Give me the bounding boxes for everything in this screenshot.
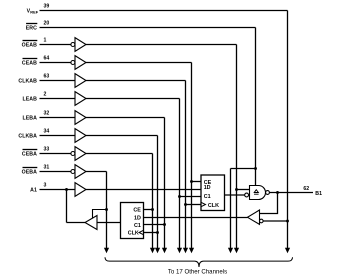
node CEAB to flip-flop CE (190, 180, 193, 183)
inverter bubble on OEBA buffer input (71, 170, 75, 174)
svg-text:39: 39 (44, 3, 50, 9)
svg-text:1: 1 (44, 37, 47, 43)
inverter bubble on gate lower input (245, 193, 249, 197)
svg-text:2: 2 (44, 91, 47, 97)
wire CEBA vertical drop (152, 154, 154, 249)
wire driver output to A1 node (67, 222, 86, 224)
svg-text:VREF: VREF (27, 8, 39, 14)
wire OEAB vertical drop (236, 45, 238, 249)
svg-text:32: 32 (44, 110, 50, 116)
node A1 junction (65, 188, 68, 191)
wire OEBA buffer output run (86, 171, 107, 173)
wire CLKBA to lower CLK input (144, 232, 158, 234)
down arrow to other channels (OEAB) (234, 248, 239, 253)
node OEBA to A-port driver enable (105, 208, 108, 211)
wire gate output to B1 (269, 192, 313, 194)
svg-text:33: 33 (44, 146, 50, 152)
wire LEAB buffer output run (86, 98, 180, 100)
wire CEBA buffer output run (86, 153, 153, 155)
wire CEAB input (pin 64) to buffer (40, 62, 71, 64)
node OEAB to output gate input (235, 188, 238, 191)
svg-text:B1: B1 (315, 191, 322, 197)
svg-text:3: 3 (44, 182, 47, 188)
clock edge symbol on B-to-A flip-flop (139, 230, 143, 234)
svg-text:ERC: ERC (26, 25, 37, 31)
wire OEAB to gate upper input (237, 189, 250, 191)
down arrow to other channels (LEAB) (177, 248, 182, 253)
buffer for CEBA (75, 147, 86, 161)
inverter bubble on CEAB buffer input (71, 61, 75, 65)
wire A1 input (40, 189, 76, 191)
wire B1 down to receiver data input (260, 193, 278, 214)
buffer A1 input (A-to-B) (75, 183, 86, 197)
wire VREF horizontal run (40, 10, 288, 12)
wire LEBA vertical drop (164, 118, 166, 249)
buffer for OEAB (75, 38, 86, 52)
inverter bubble on gate output (266, 191, 270, 195)
svg-text:1D: 1D (134, 215, 141, 221)
svg-text:CE: CE (133, 207, 141, 213)
svg-text:A1: A1 (30, 187, 37, 193)
flip-flop A-to-B (upper latch block) (201, 175, 225, 211)
inverter bubble on OEAB buffer input (71, 43, 75, 47)
down arrow to other channels (OEBA) (104, 248, 109, 253)
svg-text:C1: C1 (204, 194, 211, 200)
buffer for CLKAB (75, 74, 86, 88)
svg-text:LEBA: LEBA (22, 115, 37, 121)
svg-text:64: 64 (44, 55, 50, 61)
node VREF to receiver reference (286, 220, 289, 223)
wire LEBA to lower C1 input (144, 224, 165, 226)
svg-text:CLK: CLK (208, 203, 219, 209)
flip-flop B-to-A (lower latch block) (121, 203, 144, 239)
svg-text:CEAB: CEAB (22, 60, 37, 66)
overline for ERC (26, 23, 37, 25)
wire B-to-A flip-flop Q output to A-port driver (97, 222, 121, 224)
svg-text:34: 34 (44, 128, 50, 134)
wire OEAB input (pin 1) to buffer (40, 44, 71, 46)
buffer for LEAB (75, 92, 86, 106)
svg-text:LEAB: LEAB (22, 96, 37, 102)
wire CLKAB vertical drop (185, 81, 187, 249)
clock edge symbol on A-to-B flip-flop (201, 202, 205, 206)
wire LEAB to C1 input (180, 196, 202, 198)
buffer for OEBA (75, 165, 86, 179)
svg-text:62: 62 (303, 186, 309, 192)
wire A1 node down to driver output (66, 190, 68, 223)
down arrow to other channels (CEBA) (150, 248, 155, 253)
wire ERC branch horizontal (231, 168, 256, 170)
down arrow to other channels (CEAB) (189, 248, 194, 253)
node ERC branch junction (254, 167, 257, 170)
wire A1 buffer output to flip-flop 1D (86, 189, 201, 191)
wire CLKBA input (pin 34) to buffer (40, 135, 76, 137)
wire LEAB vertical drop (179, 99, 181, 249)
wire VREF vertical drop (287, 11, 289, 249)
down arrow to other channels (LEBA) (162, 248, 167, 253)
wire receiver output to B-to-A flip-flop 1D (144, 217, 248, 219)
wire ERC vertical drop (255, 28, 257, 186)
wire CLKAB buffer output run (86, 80, 186, 82)
wire CLKAB input (pin 63) to buffer (40, 80, 76, 82)
wire LEBA input (pin 32) to buffer (40, 117, 76, 119)
inverter bubble on CEBA buffer input (71, 152, 75, 156)
wire CEAB buffer output run (86, 62, 192, 64)
brace spanning other-channel lines (105, 257, 293, 267)
wire CEBA to lower CE input (144, 209, 153, 211)
down arrow to other channels (CLKAB) (183, 248, 188, 253)
down arrow to other channels (CLKBA) (155, 248, 160, 253)
wire CLKBA buffer output run (86, 135, 158, 137)
down arrow to other channels (VREF) (285, 248, 290, 253)
wire CEBA input (pin 33) to buffer (40, 153, 71, 155)
buffer for LEBA (75, 111, 86, 125)
node CEBA to B-to-A flip-flop CE (151, 208, 154, 211)
buffer for CLKBA (75, 129, 86, 143)
down arrow to other channels (ERC branch) (228, 248, 233, 253)
wire CLKBA vertical drop (157, 136, 159, 249)
svg-text:OEBA: OEBA (22, 169, 38, 175)
wire OEBA vertical drop (106, 172, 108, 249)
overline for CEAB (23, 58, 38, 60)
svg-text:20: 20 (44, 20, 50, 26)
svg-text:To 17 Other Channels: To 17 Other Channels (168, 268, 227, 275)
receiver B-port differential input buffer (248, 210, 260, 224)
overline for OEBA (23, 167, 38, 169)
svg-text:CLK: CLK (128, 231, 139, 237)
node LEAB to flip-flop C1 (178, 195, 181, 198)
gate open-drain NAND output driver (250, 186, 266, 200)
wire LEBA buffer output run (86, 117, 165, 119)
svg-text:31: 31 (44, 164, 50, 170)
wire ERC horizontal run (40, 27, 256, 29)
open-drain qualifier symbol inside gate (254, 190, 258, 193)
wire OEBA input (pin 31) to buffer (40, 171, 71, 173)
wire VREF to receiver reference input (263, 220, 287, 222)
wire A-to-B flip-flop Q output to gate bubble (225, 194, 245, 196)
wire CLKAB to CLK input (186, 204, 202, 206)
svg-text:CEBA: CEBA (22, 151, 37, 157)
wire OEBA enable to A-port driver (93, 210, 107, 219)
wire LEAB input (pin 2) to buffer (40, 98, 76, 100)
svg-text:CLKAB: CLKAB (18, 78, 37, 84)
svg-text:CLKBA: CLKBA (18, 133, 37, 139)
inverter bubble on receiver reference input (260, 219, 264, 223)
node LEBA to B-to-A flip-flop C1 (163, 223, 166, 226)
wire CEAB to CE input (192, 181, 202, 183)
overline for OEAB (23, 40, 38, 42)
svg-text:C1: C1 (134, 223, 141, 229)
wire ERC branch vertical down (230, 169, 232, 249)
driver A-port output (B-to-A), left-pointing buffer (85, 216, 97, 230)
svg-text:1D: 1D (204, 185, 211, 191)
svg-text:OEAB: OEAB (22, 42, 38, 48)
buffer for CEAB (75, 56, 86, 70)
node CLKAB to flip-flop CLK (184, 203, 187, 206)
wire CEAB vertical drop (191, 63, 193, 249)
svg-text:63: 63 (44, 73, 50, 79)
node CLKBA to B-to-A flip-flop CLK (156, 231, 159, 234)
wire OEAB buffer output run (86, 44, 237, 46)
overline for CEBA (23, 149, 38, 151)
node B1 branch junction (276, 191, 279, 194)
